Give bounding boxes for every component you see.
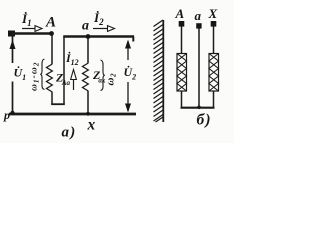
voltage U2 arrow line (top part)	[127, 42, 129, 60]
terminal X square	[211, 21, 217, 27]
current I1 arrow	[22, 28, 35, 30]
wire: A lead down	[181, 27, 183, 54]
svg-text:p: p	[3, 108, 10, 122]
svg-text:x: x	[87, 117, 96, 134]
brace right	[101, 60, 105, 91]
core (hatched bar)	[154, 20, 164, 122]
voltage U2 arrowhead down	[125, 104, 131, 113]
node x junction dot	[86, 112, 90, 116]
junction dot at tap	[197, 106, 201, 110]
voltage U2 arrowhead up	[125, 40, 131, 49]
wire: winding 2 bottom lead	[213, 91, 215, 108]
svg-text:İ1: İ1	[21, 11, 32, 28]
svg-text:a: a	[195, 8, 202, 23]
wire: below zigzag to bottom	[87, 91, 89, 115]
terminal A square	[179, 21, 185, 27]
svg-text:ZAa: ZAa	[55, 71, 71, 88]
svg-text:A: A	[45, 15, 56, 31]
wire: U-turn bottom	[51, 103, 65, 105]
svg-text:A: A	[175, 6, 185, 21]
winding 1 (series) rectangle	[177, 54, 187, 92]
winding 2 fill pattern	[209, 54, 219, 92]
svg-text:U̇2: U̇2	[124, 65, 137, 82]
winding 2 (common) rectangle	[209, 54, 219, 92]
terminal (input, top-left square)	[8, 31, 15, 37]
resistor Z series winding (zigzag)	[47, 64, 53, 92]
wire: branch a down	[87, 37, 89, 64]
resistor Z common winding (zigzag)	[83, 63, 89, 91]
current I2 arrow	[93, 28, 108, 30]
voltage U2 arrow line (bottom part)	[127, 82, 129, 111]
svg-text:X: X	[208, 6, 218, 21]
wire: branch up to a-section	[63, 36, 65, 104]
svg-text:U̇1: U̇1	[14, 66, 27, 83]
wire: branch A down	[51, 34, 53, 65]
stub at right end of top wire	[132, 37, 134, 42]
svg-text:б): б)	[197, 112, 212, 129]
svg-text:İ2: İ2	[93, 10, 104, 27]
wire: below zigzag	[51, 92, 53, 104]
wire: winding 1 bottom lead	[181, 91, 183, 108]
svg-text:ω1-ω2: ω1-ω2	[30, 62, 41, 91]
svg-text:ω2: ω2	[105, 73, 118, 85]
node a junction dot	[86, 34, 91, 39]
winding 1 fill pattern	[177, 54, 187, 92]
current I12 arrow (up)	[73, 79, 75, 90]
svg-text:a: a	[82, 19, 89, 34]
terminal a square	[196, 23, 201, 28]
brace left	[40, 59, 44, 90]
wire: top-left horizontal A-section	[11, 32, 53, 34]
wire: a lead down (tap)	[198, 29, 200, 108]
wire: bottom connecting wire b)	[181, 107, 215, 109]
wire: top a-section horizontal	[63, 35, 134, 37]
wire: bottom horizontal	[9, 113, 136, 116]
wire: left edge vertical	[12, 34, 14, 63]
voltage U1 arrowhead up	[10, 40, 16, 50]
bottom-left corner dot	[10, 111, 14, 115]
node A junction dot	[49, 31, 54, 36]
svg-text:İ12: İ12	[65, 51, 79, 67]
wire: X lead down	[213, 27, 215, 54]
svg-text:а): а)	[62, 125, 77, 141]
